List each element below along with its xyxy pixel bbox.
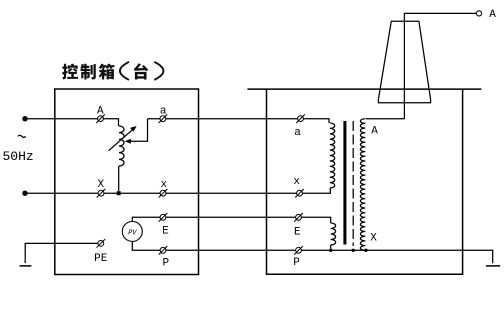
- node junction on X wire: [117, 191, 121, 195]
- core dashed shield: [352, 121, 354, 246]
- svg-text:PV: PV: [128, 229, 137, 237]
- winding E-P instrument: [331, 223, 336, 245]
- voltmeter PV: [122, 221, 142, 241]
- wire bushing stem to HV terminal: [404, 13, 476, 118]
- ground left: [20, 265, 32, 267]
- svg-text:A: A: [371, 126, 378, 138]
- terminal a control: [159, 114, 168, 123]
- wire: PE lead: [25, 243, 98, 263]
- svg-text:E: E: [294, 227, 301, 239]
- ground right: [486, 265, 500, 267]
- test box walls: [267, 89, 463, 274]
- junction dots bottom: [329, 249, 332, 252]
- variac wiper arrow: [131, 119, 148, 142]
- winding A-X secondary: [360, 119, 365, 251]
- wire: mains A-phase input: [25, 119, 119, 126]
- svg-text:PE: PE: [94, 253, 108, 265]
- terminal x control: [159, 189, 168, 198]
- terminal x transformer: [295, 189, 304, 198]
- svg-text:E: E: [162, 226, 169, 238]
- bushing insulator: [378, 21, 430, 103]
- svg-text:P: P: [293, 257, 300, 269]
- control box: [55, 89, 199, 275]
- HV output terminal: [476, 11, 481, 16]
- svg-text:X: X: [97, 179, 104, 191]
- terminal A control: [96, 114, 105, 123]
- svg-text:X: X: [370, 233, 377, 245]
- winding a-x primary: [330, 123, 335, 188]
- test box top line: [247, 88, 481, 90]
- terminal E control: [159, 213, 168, 222]
- svg-text:a: a: [160, 106, 167, 118]
- wire: E row voltmeter lead: [132, 217, 330, 223]
- wire secondary top to bushing: [366, 118, 405, 120]
- wire: X / x row: [25, 188, 330, 193]
- terminal X control: [97, 189, 106, 198]
- variac T1 coil: [119, 126, 124, 166]
- svg-text:x: x: [293, 176, 300, 188]
- title 控制箱（台）: [62, 62, 163, 80]
- svg-text:a: a: [294, 127, 301, 139]
- terminal PE control: [97, 239, 106, 248]
- svg-text:50Hz: 50Hz: [3, 149, 34, 164]
- ~ 50Hz source label: [18, 135, 26, 137]
- terminal P control: [159, 246, 168, 255]
- wire: variac output to winding a: [148, 119, 330, 123]
- terminal dot L2: [22, 191, 27, 196]
- terminal P transformer: [294, 246, 303, 255]
- wire: P row / earth return: [132, 241, 492, 263]
- terminal E transformer: [294, 213, 303, 222]
- svg-text:A: A: [97, 106, 104, 118]
- transformer core: [343, 121, 346, 245]
- variac arrow: [109, 130, 133, 151]
- svg-text:A: A: [489, 9, 496, 21]
- terminal dot L1: [22, 116, 27, 121]
- svg-text:P: P: [162, 257, 169, 269]
- svg-text:x: x: [160, 179, 167, 191]
- terminal a transformer: [296, 114, 305, 123]
